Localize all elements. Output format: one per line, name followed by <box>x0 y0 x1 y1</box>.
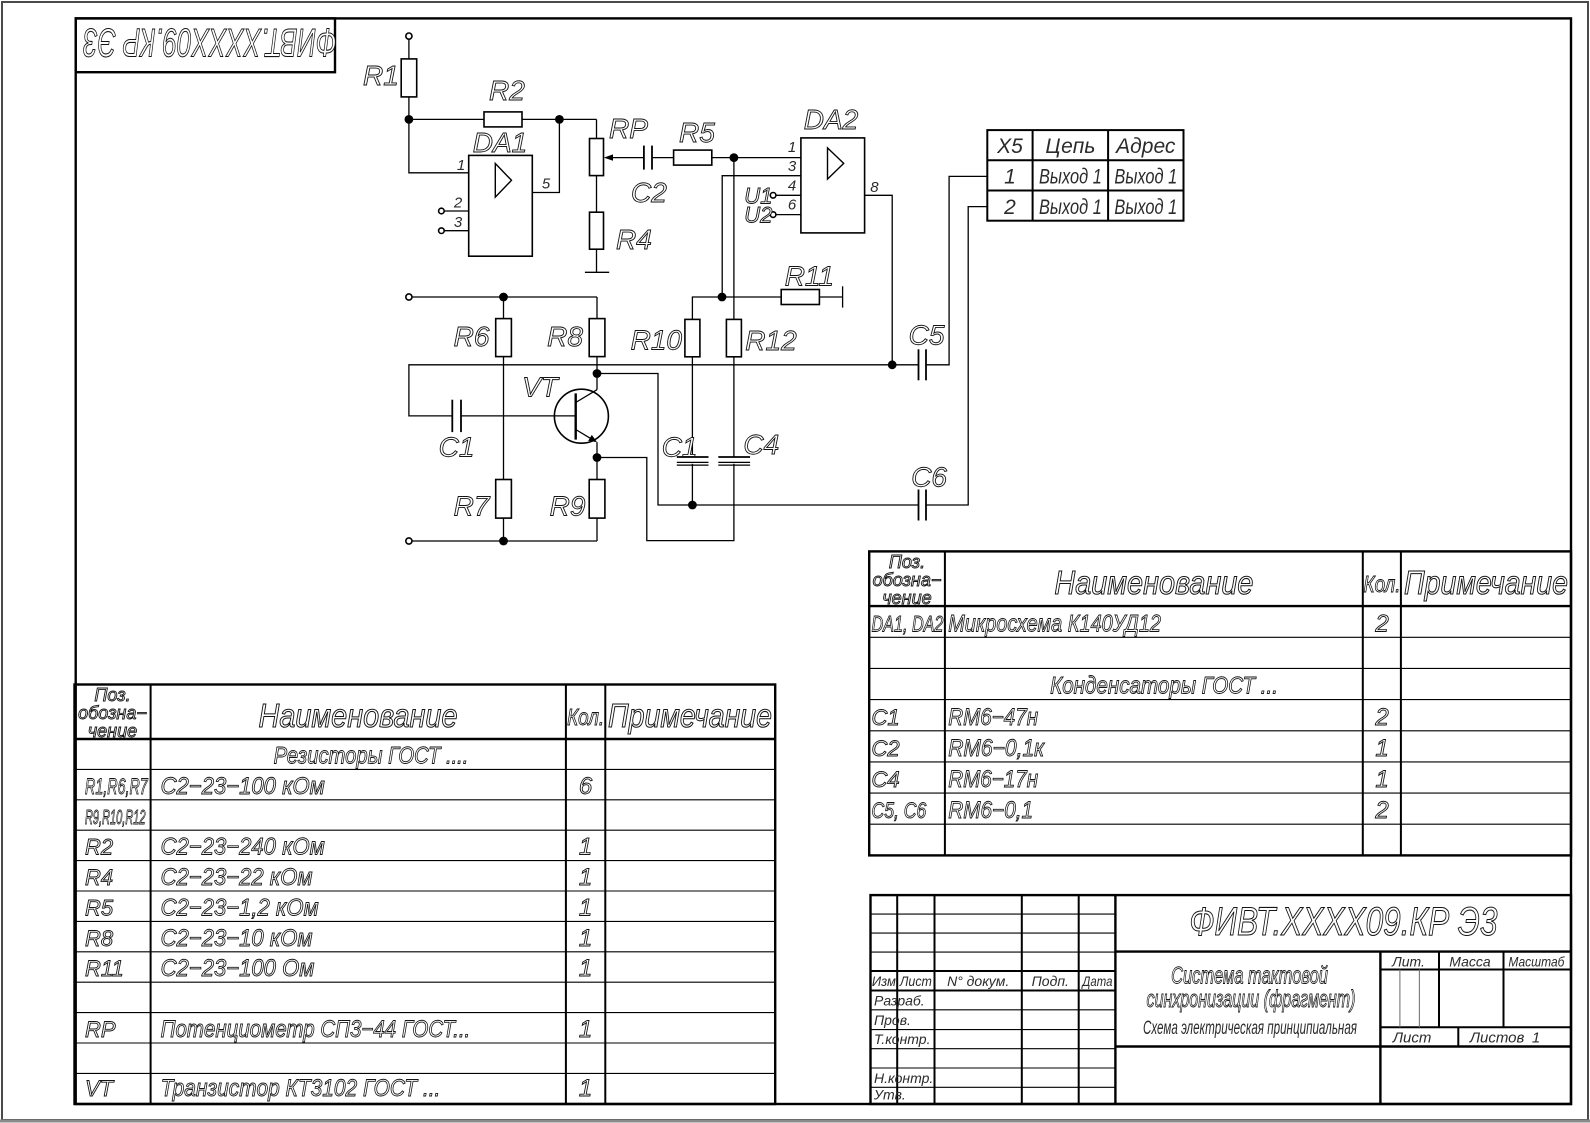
net A wire (pin3-R10-R11) <box>692 297 722 319</box>
svg-text:С2−23−240 кОм: С2−23−240 кОм <box>161 833 325 860</box>
svg-text:Дата: Дата <box>1081 973 1113 989</box>
svg-text:DA1, DA2: DA1, DA2 <box>872 613 944 637</box>
ground <box>585 271 609 273</box>
connector X5 table <box>987 130 1183 221</box>
wire <box>691 357 693 457</box>
node junction R1/R2 <box>405 115 414 124</box>
svg-text:Лист: Лист <box>1392 1030 1432 1047</box>
svg-text:N° докум.: N° докум. <box>947 973 1009 989</box>
resistor R4 <box>590 212 604 249</box>
svg-text:Выход 1: Выход 1 <box>1114 195 1177 218</box>
capacitor C1 (second) <box>677 456 709 458</box>
svg-text:1: 1 <box>1004 166 1016 189</box>
svg-text:RM6−17н: RM6−17н <box>948 766 1038 793</box>
svg-text:R8: R8 <box>547 321 583 352</box>
svg-text:ФИВТ.ХХХХ09.КР Э3: ФИВТ.ХХХХ09.КР Э3 <box>1189 898 1497 943</box>
svg-text:Транзистор КТ3102 ГОСТ ...: Транзистор КТ3102 ГОСТ ... <box>161 1075 441 1102</box>
wire <box>596 119 598 138</box>
svg-text:2: 2 <box>1374 610 1388 637</box>
svg-text:DA2: DA2 <box>804 104 859 135</box>
collector tap wire <box>597 374 692 506</box>
svg-text:C5: C5 <box>909 320 945 351</box>
svg-text:С2−23−22 кОм: С2−23−22 кОм <box>161 863 313 890</box>
svg-text:RM6−0,1: RM6−0,1 <box>948 797 1033 824</box>
node junction R2/pin5 <box>555 115 564 124</box>
BOM table right <box>869 551 1571 855</box>
wire <box>532 119 559 192</box>
svg-text:3: 3 <box>788 158 797 175</box>
resistor R11 <box>781 290 819 305</box>
emitter tap wire <box>597 458 734 541</box>
capacitor C1 (left) <box>451 400 453 432</box>
svg-text:5: 5 <box>542 176 551 193</box>
svg-text:VT: VT <box>85 1076 115 1101</box>
svg-text:обозна−: обозна− <box>78 703 147 723</box>
svg-text:R8: R8 <box>85 926 114 951</box>
wire <box>409 118 597 120</box>
pin 2 <box>439 208 445 214</box>
svg-text:R5: R5 <box>85 895 114 920</box>
svg-text:Примечание: Примечание <box>1404 564 1568 601</box>
svg-text:3: 3 <box>454 214 463 231</box>
svg-text:RP: RP <box>609 113 648 144</box>
svg-text:RM6−47н: RM6−47н <box>948 703 1038 730</box>
svg-text:R9,R10,R12: R9,R10,R12 <box>85 807 145 829</box>
terminal input left-top <box>406 294 412 300</box>
pin 3 <box>439 228 445 234</box>
svg-text:R12: R12 <box>745 325 797 356</box>
svg-text:6: 6 <box>579 773 593 800</box>
svg-text:8: 8 <box>870 179 879 196</box>
svg-text:2: 2 <box>453 195 463 212</box>
R6-R7 column wire <box>503 357 505 480</box>
wire to X5 pin2 <box>926 207 987 505</box>
svg-text:Лит.: Лит. <box>1391 954 1425 970</box>
svg-text:DA1: DA1 <box>473 127 527 158</box>
svg-text:2: 2 <box>1003 196 1016 219</box>
node junction C1b bottom <box>688 501 697 510</box>
resistor R8 <box>596 297 598 319</box>
svg-text:C5, C6: C5, C6 <box>872 799 928 823</box>
resistor R6 <box>503 297 505 319</box>
wire <box>652 157 674 159</box>
wire <box>733 357 735 457</box>
wire to X5 pin1 <box>926 176 987 364</box>
svg-text:Листов: Листов <box>1469 1030 1525 1047</box>
svg-text:Изм: Изм <box>872 973 896 989</box>
potentiometer RP <box>590 139 604 176</box>
svg-text:Поз.: Поз. <box>889 552 925 572</box>
svg-text:Конденсаторы ГОСТ ...: Конденсаторы ГОСТ ... <box>1050 672 1278 699</box>
svg-text:Наименование: Наименование <box>258 697 457 734</box>
svg-text:Потенциометр СП3−44 ГОСТ...: Потенциометр СП3−44 ГОСТ... <box>161 1016 471 1043</box>
svg-text:6: 6 <box>788 197 797 214</box>
svg-text:C4: C4 <box>743 429 779 460</box>
svg-text:1: 1 <box>457 157 465 174</box>
node junction emitter <box>593 453 602 462</box>
collector wire <box>596 357 598 390</box>
svg-text:Н.контр.: Н.контр. <box>874 1070 933 1086</box>
svg-text:R5: R5 <box>679 117 715 148</box>
wire bottom rail <box>412 540 597 542</box>
svg-text:Кол.: Кол. <box>567 705 604 730</box>
resistor R2 <box>484 112 522 127</box>
svg-text:Микросхема К140УД12: Микросхема К140УД12 <box>948 610 1161 637</box>
op-amp U DA2 <box>801 138 865 233</box>
net B long horizontal <box>409 365 892 416</box>
wire top rail <box>412 296 597 298</box>
svg-text:R6: R6 <box>454 321 490 352</box>
wire <box>691 464 693 505</box>
svg-text:Лист: Лист <box>899 973 932 989</box>
svg-text:Подп.: Подп. <box>1032 973 1069 989</box>
svg-text:R9: R9 <box>550 490 586 521</box>
svg-text:Система тактовой: Система тактовой <box>1171 963 1328 990</box>
svg-text:чение: чение <box>882 588 931 608</box>
svg-text:2: 2 <box>1374 797 1388 824</box>
resistor R5 <box>674 150 712 165</box>
wire <box>596 249 598 272</box>
svg-text:Т.контр.: Т.контр. <box>874 1031 930 1047</box>
transistor VT <box>554 389 608 443</box>
resistor R7 <box>496 480 512 519</box>
svg-text:Наименование: Наименование <box>1054 564 1253 601</box>
svg-text:ФИВТ.ХХХХ09.КР Э3: ФИВТ.ХХХХ09.КР Э3 <box>83 19 337 64</box>
wire <box>408 39 410 59</box>
svg-text:R4: R4 <box>85 865 113 890</box>
terminal input top (R1) <box>406 33 412 39</box>
BOM table left <box>75 685 776 1105</box>
node junction collector <box>593 369 602 378</box>
capacitor C6 <box>692 504 918 506</box>
wire <box>596 176 598 213</box>
svg-text:R7: R7 <box>454 490 491 521</box>
resistor R1 <box>401 59 417 97</box>
svg-text:Разраб.: Разраб. <box>874 992 925 1008</box>
capacitor C2 <box>643 146 645 170</box>
svg-text:1: 1 <box>788 139 796 156</box>
stamp box top-left <box>76 18 335 72</box>
svg-text:R1,R6,R7: R1,R6,R7 <box>85 774 148 799</box>
resistor R10 <box>685 319 700 356</box>
node junction C5 <box>888 360 897 369</box>
node junction R5/R12 <box>730 153 739 162</box>
node junction R7 bottom <box>499 537 508 546</box>
svg-text:U2: U2 <box>744 203 772 228</box>
svg-text:Пров.: Пров. <box>874 1012 911 1028</box>
svg-text:1: 1 <box>1532 1030 1540 1047</box>
svg-text:R10: R10 <box>631 325 683 356</box>
wire <box>712 157 801 159</box>
svg-text:C2: C2 <box>872 736 900 761</box>
svg-text:Поз.: Поз. <box>94 685 130 705</box>
base wire <box>461 415 576 417</box>
pin 3 <box>722 176 801 297</box>
svg-text:RM6−0,1к: RM6−0,1к <box>948 735 1045 762</box>
resistor R12 <box>726 319 741 356</box>
svg-text:4: 4 <box>788 178 796 195</box>
svg-text:С2−23−10 кОм: С2−23−10 кОм <box>161 924 313 951</box>
emitter wire <box>596 442 598 457</box>
svg-text:2: 2 <box>1374 704 1388 731</box>
svg-text:Резисторы ГОСТ ....: Резисторы ГОСТ .... <box>274 742 469 769</box>
svg-text:C1: C1 <box>662 432 698 463</box>
svg-text:1: 1 <box>579 894 592 921</box>
node junction R6 top <box>499 293 508 302</box>
wire R5 junction down to R12 <box>733 158 735 320</box>
svg-text:1: 1 <box>579 1075 592 1102</box>
pin 6 / U2 <box>770 212 776 218</box>
svg-text:Схема электрическая принципиал: Схема электрическая принципиальная <box>1143 1018 1357 1039</box>
svg-text:Масса: Масса <box>1449 954 1491 970</box>
svg-text:Примечание: Примечание <box>608 697 772 734</box>
svg-text:1: 1 <box>579 834 592 861</box>
wire <box>408 97 410 120</box>
R11 end terminal bar <box>842 286 844 307</box>
pin 4 / U1 <box>770 193 776 199</box>
svg-text:чение: чение <box>88 721 137 741</box>
svg-text:обозна−: обозна− <box>873 570 942 590</box>
svg-text:R2: R2 <box>85 835 113 860</box>
svg-text:R11: R11 <box>785 260 834 291</box>
svg-text:1: 1 <box>579 925 592 952</box>
capacitor C4 <box>718 456 750 458</box>
svg-text:C2: C2 <box>631 177 667 208</box>
svg-text:синхронизации (фрагмент): синхронизации (фрагмент) <box>1147 987 1356 1013</box>
svg-text:С2−23−100 Ом: С2−23−100 Ом <box>161 954 315 981</box>
resistor R9 <box>596 458 598 480</box>
op-amp U DA1 <box>469 155 533 256</box>
svg-text:1: 1 <box>579 955 592 982</box>
svg-text:1: 1 <box>1375 735 1388 762</box>
svg-text:R4: R4 <box>616 224 652 255</box>
svg-text:С2−23−1,2 кОм: С2−23−1,2 кОм <box>161 894 319 921</box>
svg-text:Выход 1: Выход 1 <box>1039 195 1102 218</box>
terminal input left-bottom <box>406 538 412 544</box>
capacitor C5 <box>892 364 918 366</box>
svg-text:Адрес: Адрес <box>1114 135 1176 158</box>
svg-text:C1: C1 <box>439 432 475 463</box>
svg-text:R2: R2 <box>489 75 525 106</box>
svg-text:1: 1 <box>579 864 592 891</box>
svg-text:C4: C4 <box>872 767 900 792</box>
svg-text:C1: C1 <box>872 705 900 730</box>
svg-text:RP: RP <box>85 1017 116 1042</box>
svg-text:X5: X5 <box>996 135 1023 158</box>
svg-text:1: 1 <box>1375 766 1388 793</box>
svg-text:Цепь: Цепь <box>1045 135 1095 158</box>
svg-text:С2−23−100 кОм: С2−23−100 кОм <box>161 772 325 799</box>
svg-text:Выход 1: Выход 1 <box>1039 165 1102 188</box>
pin 8 output <box>865 195 893 364</box>
svg-text:R1: R1 <box>363 60 399 91</box>
svg-text:C6: C6 <box>911 462 947 493</box>
svg-text:1: 1 <box>579 1016 592 1043</box>
svg-text:Утв.: Утв. <box>873 1087 906 1103</box>
title block <box>871 895 1572 1104</box>
svg-text:VT: VT <box>522 372 560 403</box>
svg-text:Кол.: Кол. <box>1363 572 1400 597</box>
svg-text:Выход 1: Выход 1 <box>1114 165 1177 188</box>
wire <box>409 119 469 172</box>
svg-text:Масштаб: Масштаб <box>1508 954 1565 970</box>
svg-text:R11: R11 <box>85 956 124 981</box>
RP wiper arrow <box>606 157 644 159</box>
